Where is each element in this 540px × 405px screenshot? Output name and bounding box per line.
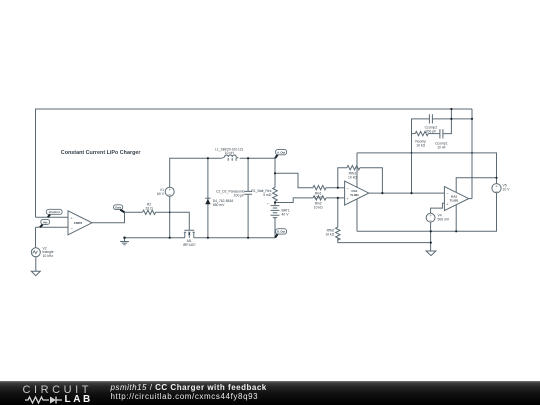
junction sense tap B	[274, 201, 276, 203]
voltage source V1	[165, 187, 174, 196]
wire OA2 noninverting input jog to V4	[431, 203, 445, 213]
junction D4 bottom rail	[207, 237, 209, 239]
ground below V2	[31, 271, 40, 276]
svg-text:+: +	[71, 217, 73, 221]
wire OA2 V- pin to negative rail	[455, 205, 457, 232]
op-amp CMP2	[68, 211, 92, 235]
svg-text:IRF1407: IRF1407	[183, 243, 196, 247]
wire OA1 output to OA2 inverting input	[369, 192, 445, 194]
wire OA2 V+ pin to supply	[456, 178, 496, 192]
wire CMP2 output to gate resistor	[92, 212, 143, 223]
svg-text:10 V: 10 V	[503, 188, 511, 192]
junction RfN1 tap	[337, 187, 339, 189]
voltage source V2	[31, 248, 40, 257]
wire bottom rail right segment (M1 source to B_Out)	[194, 237, 275, 239]
ground left end of source rail	[120, 238, 129, 245]
svg-text:40 V: 40 V	[282, 213, 290, 217]
flag pole Vtri	[40, 225, 43, 228]
svg-text:+: +	[347, 197, 349, 201]
junction V4 negative rail	[430, 230, 432, 232]
resistor Rin2	[313, 196, 326, 200]
diode D4	[205, 197, 210, 199]
junction comp left tee	[410, 192, 412, 194]
wire R2 to M1 gate	[156, 212, 190, 230]
wire OA2 output vertical riser	[471, 109, 473, 199]
capacitor C2 plates	[244, 191, 252, 194]
ground below V4	[426, 251, 436, 256]
V2 triangle waveform glyph	[33, 251, 38, 254]
resistor RfN2	[336, 227, 340, 240]
flag pole Vcontrol	[48, 215, 50, 218]
junction C2 top rail	[247, 157, 249, 159]
svg-text:+: +	[267, 202, 269, 206]
op-amp OA1	[345, 181, 369, 205]
wire Rin1 to OA1 inverting input	[326, 187, 345, 189]
wire end ground rail	[123, 237, 125, 239]
svg-text:5 mΩ: 5 mΩ	[263, 193, 272, 197]
crossing bump supply rail over output riser	[471, 152, 473, 154]
svg-text:Gate: Gate	[115, 206, 121, 210]
node flag Vcontrol	[46, 209, 62, 214]
capacitor Ccomp1	[440, 129, 443, 138]
circuitlab logo schematic squiggle	[25, 394, 70, 405]
svg-text:CMP2: CMP2	[74, 221, 83, 225]
junction sense tap A	[274, 172, 276, 174]
junction C2 bottom rail	[247, 237, 249, 239]
wire CMP2 inverting input from V2	[36, 227, 69, 248]
wire top feedback from OA2 output to left column	[36, 109, 473, 217]
resistor Rcomp	[415, 131, 428, 135]
wire RfN2 bottom to ground node	[338, 238, 431, 242]
node flag Vtri	[41, 219, 50, 224]
wire OA2 output to riser	[469, 198, 472, 200]
flag pole A_Out	[275, 155, 278, 158]
wire D4 branch	[207, 158, 209, 238]
wire RfN2 branch down from noninverting input	[337, 198, 339, 227]
node flag A_Out	[276, 149, 287, 154]
wire R1 to battery	[274, 201, 276, 205]
junction comp right top	[450, 108, 452, 110]
wire negative supply rail	[357, 193, 497, 232]
wire A_Out branch down to R1	[274, 158, 276, 187]
svg-text:10 kΩ: 10 kΩ	[416, 144, 425, 148]
wire Rcomp to Ccomp1	[428, 133, 440, 135]
footer title text	[111, 383, 267, 392]
svg-text:100 µF: 100 µF	[234, 193, 245, 197]
svg-text:−: −	[347, 185, 350, 190]
resistor Rin1	[313, 186, 326, 190]
wire V2 to ground	[35, 257, 37, 271]
svg-text:TL081: TL081	[450, 198, 459, 202]
battery BAT1	[271, 206, 280, 218]
svg-text:10 kΩ: 10 kΩ	[325, 233, 334, 237]
svg-text:10 uH: 10 uH	[225, 151, 235, 155]
footer bar	[0, 381, 540, 405]
junction V5 top V+ tee	[495, 177, 497, 179]
wire Ccomp1 right plate up to comp right node	[443, 109, 452, 134]
wire current sense bottom (B side) to Rin2	[275, 198, 313, 203]
junction V4 ground wire	[430, 242, 432, 244]
crossing bump supply rail over comp-left	[411, 152, 413, 154]
svg-text:650 mV: 650 mV	[213, 203, 225, 207]
wire RfN1 right end down to OA1 output	[360, 168, 383, 193]
svg-text:500 mV: 500 mV	[438, 218, 450, 222]
wire Rin2 to OA1 noninverting input	[326, 197, 345, 199]
wire positive supply rail	[357, 153, 497, 184]
svg-text:A_Out: A_Out	[277, 150, 285, 154]
circuitlab logo word CIRCUIT	[23, 384, 92, 396]
wire CMP2 noninverting input	[36, 216, 69, 218]
svg-text:Vtri: Vtri	[43, 220, 48, 224]
svg-text:Constant Current LiPo Charger: Constant Current LiPo Charger	[61, 150, 142, 156]
wire V1 top to top rail	[170, 158, 222, 187]
wire Ccomp2 right plate to comp right node	[432, 118, 472, 120]
svg-text:10 kΩ: 10 kΩ	[314, 206, 323, 210]
footer url text	[111, 392, 259, 401]
transistor M1 body arrow	[188, 233, 190, 235]
wire top rail from L1 to A_Out corner	[240, 157, 275, 159]
wire RfN1 branch up from inverting input	[338, 168, 347, 188]
flag pole Gate	[120, 210, 124, 212]
junction RfN1 output tee	[381, 192, 383, 194]
node flag B_Out	[276, 229, 287, 234]
junction RfN2 tap	[337, 197, 339, 199]
svg-text:10 kΩ: 10 kΩ	[348, 175, 357, 179]
wire Rcomp tap	[412, 133, 416, 135]
junction OA2 V- rail	[455, 230, 457, 232]
resistor R1_Batt_Res	[273, 187, 278, 201]
svg-text:200 pF: 200 pF	[426, 130, 437, 134]
svg-text:10 kΩ: 10 kΩ	[314, 195, 323, 199]
wire V4 bottom through rails to ground	[430, 222, 432, 251]
node flag Gate	[114, 205, 123, 210]
resistor RfN1	[347, 166, 360, 170]
svg-text:−: −	[446, 191, 449, 196]
svg-text:−: −	[71, 226, 74, 231]
svg-text:TL081: TL081	[350, 193, 359, 197]
junction riser Ccomp2	[471, 118, 473, 120]
svg-text:B_Out: B_Out	[277, 230, 285, 234]
inductor L1	[222, 155, 238, 161]
svg-text:Vcontrol: Vcontrol	[49, 210, 60, 214]
resistor R2	[143, 210, 156, 214]
wire battery to bottom rail	[274, 218, 276, 238]
capacitor Ccomp2	[429, 114, 432, 123]
wire OA1 V+ pin to supply rail	[356, 153, 358, 188]
transistor M1	[184, 230, 195, 237]
svg-text:10 nF: 10 nF	[437, 146, 446, 150]
flag pole B_Out	[275, 234, 278, 237]
wire OA1 V- pin down	[356, 199, 358, 232]
voltage source V4	[426, 213, 435, 222]
wire V1 bottom to bottom rail	[169, 196, 171, 238]
svg-text:20 Ω: 20 Ω	[145, 206, 153, 210]
svg-text:60 V: 60 V	[157, 192, 165, 196]
svg-text:10 kHz: 10 kHz	[43, 254, 54, 258]
svg-text:−: −	[168, 192, 171, 197]
voltage source V5	[492, 184, 501, 193]
svg-text:−: −	[495, 189, 498, 194]
capacitor C2 branch wires	[247, 158, 249, 238]
crossing bump gate wire over V1 riser	[169, 212, 171, 214]
svg-text:−: −	[429, 218, 432, 223]
circuitlab logo word LAB	[65, 394, 93, 405]
wire current sense top (A side) to Rin1	[275, 173, 313, 187]
wire comp network left node (OA2 inverting)	[412, 119, 430, 193]
junction V1 bottom rail	[169, 237, 171, 239]
junction D4 top rail	[207, 157, 209, 159]
diode D4 body	[205, 199, 210, 205]
wire bottom rail left segment (ground to M1 drain)	[125, 237, 185, 239]
svg-text:+: +	[446, 203, 448, 207]
op-amp OA2	[444, 187, 468, 211]
junction Ccomp2 right	[450, 118, 452, 120]
